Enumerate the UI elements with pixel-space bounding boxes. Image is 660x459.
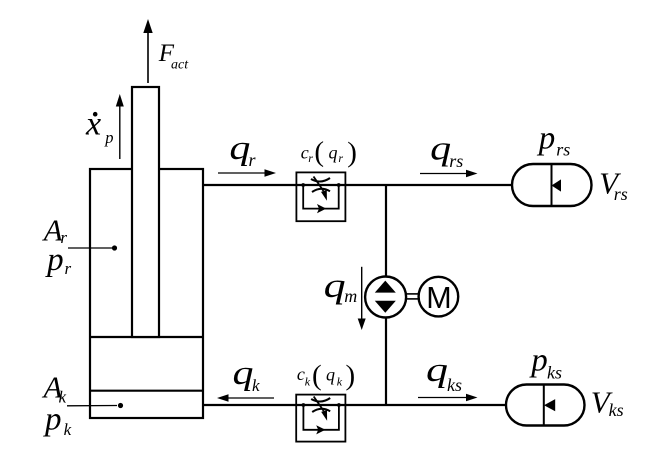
svg-text:p: p [45, 242, 64, 278]
svg-text:(: ( [312, 359, 322, 391]
svg-text:p: p [43, 401, 62, 437]
svg-text:q: q [229, 130, 250, 167]
svg-text:r: r [338, 151, 343, 165]
svg-text:k: k [252, 376, 260, 395]
svg-text:r: r [308, 151, 313, 165]
svg-text:p: p [104, 128, 113, 147]
svg-text:q: q [326, 365, 335, 385]
svg-text:ks: ks [447, 375, 462, 395]
svg-text:): ) [347, 137, 357, 169]
svg-text:k: k [305, 374, 311, 388]
svg-text:q: q [324, 266, 346, 305]
svg-text:p: p [537, 120, 556, 156]
svg-text:q: q [426, 352, 448, 389]
svg-text:p: p [529, 343, 548, 379]
svg-text:rs: rs [556, 140, 570, 160]
svg-text:act: act [171, 58, 189, 73]
svg-text:(: ( [314, 136, 324, 168]
svg-text:ks: ks [547, 362, 562, 382]
svg-text:k: k [64, 420, 72, 439]
svg-text:rs: rs [614, 184, 628, 204]
svg-text:r: r [249, 150, 257, 170]
svg-text:rs: rs [449, 151, 463, 171]
svg-text:m: m [344, 286, 357, 306]
svg-text:x: x [85, 106, 101, 143]
svg-text:q: q [430, 131, 451, 168]
svg-text:q: q [329, 142, 338, 162]
svg-text:M: M [426, 281, 451, 315]
svg-text:r: r [65, 259, 72, 278]
svg-text:c: c [297, 364, 305, 384]
svg-text:ks: ks [609, 400, 624, 420]
svg-text:k: k [337, 374, 343, 388]
svg-text:q: q [233, 355, 254, 392]
svg-text:): ) [346, 360, 356, 392]
